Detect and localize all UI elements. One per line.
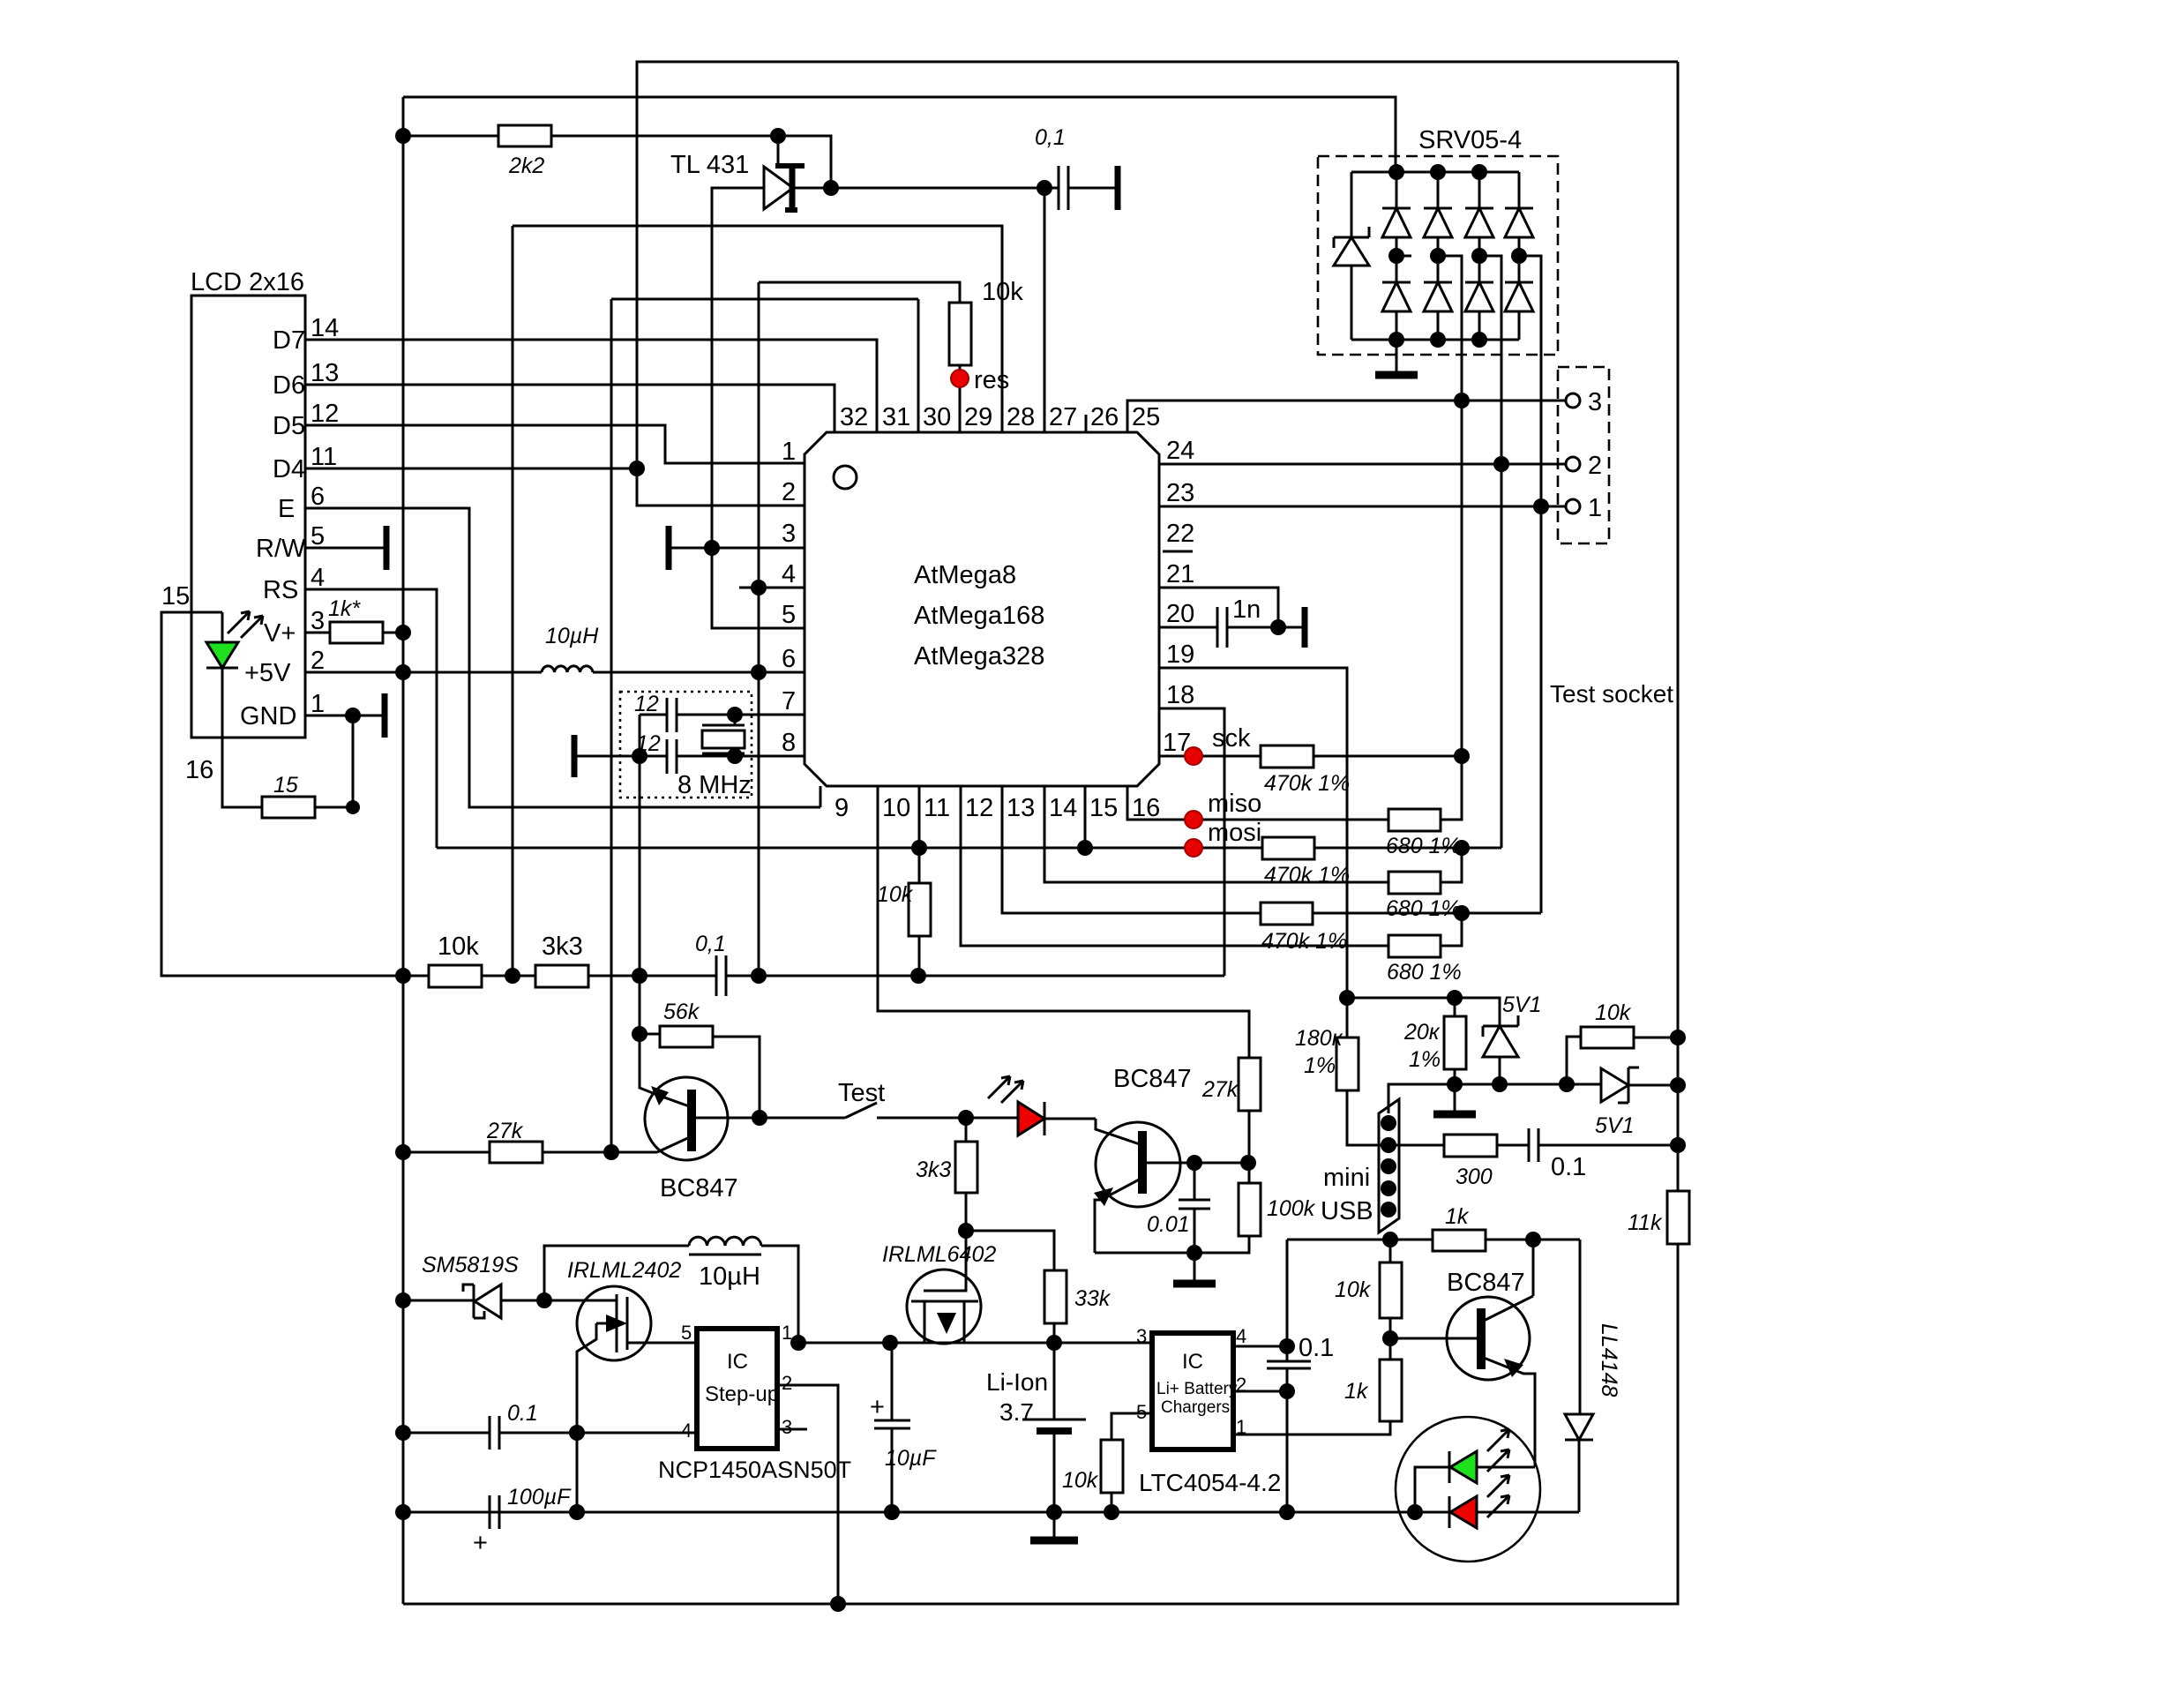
IC LTC4054 charger bbox=[1136, 1325, 1281, 1496]
LCD pin D4 wire (to node at x722) bbox=[273, 443, 637, 483]
svg-text:12: 12 bbox=[965, 794, 993, 822]
wire caps common leg bbox=[639, 715, 641, 756]
svg-text:RS: RS bbox=[263, 576, 298, 604]
junction 0.1/right rail bbox=[1670, 1137, 1686, 1153]
svg-text:2k2: 2k2 bbox=[508, 154, 544, 178]
svg-text:22: 22 bbox=[1166, 520, 1194, 548]
wire MCU pin 16 to miso row bbox=[1127, 786, 1388, 820]
svg-text:100µF: 100µF bbox=[507, 1485, 572, 1509]
svg-text:mini: mini bbox=[1323, 1164, 1370, 1192]
junction mid d4 bbox=[1511, 248, 1527, 264]
op-amp TL431 shunt regulator bbox=[670, 151, 805, 212]
junction 1k row left bbox=[1382, 1232, 1398, 1247]
junction pin23/TP1 bbox=[1533, 498, 1549, 514]
junction pin24/TP2 bbox=[1493, 456, 1509, 472]
svg-text:0.1: 0.1 bbox=[507, 1401, 538, 1426]
junction 56k left / VCC column bbox=[632, 1026, 647, 1042]
junction mid d3 bbox=[1471, 248, 1487, 264]
resistor 100k bbox=[1095, 1163, 1316, 1253]
junction chg 0.1 bottom rail bbox=[1279, 1504, 1295, 1520]
junction x725/row1106 bbox=[632, 968, 647, 984]
+5V bus vertical bbox=[402, 97, 405, 1604]
junction VCC row / mosfet left bbox=[882, 1335, 898, 1351]
svg-text:56k: 56k bbox=[663, 1000, 700, 1024]
junction battery node bbox=[1046, 1335, 1062, 1351]
wire MCU pin 11 with 10k bbox=[877, 786, 931, 976]
wire chg pin1 to 1k bbox=[1233, 1421, 1390, 1435]
capacitor 0,1 (AREF row) bbox=[695, 932, 1224, 996]
svg-text:1: 1 bbox=[1588, 494, 1602, 522]
svg-text:0,1: 0,1 bbox=[1035, 125, 1066, 150]
battery Li-Ion 3.7 bbox=[986, 1343, 1086, 1512]
wire row 1106 (left part) bbox=[403, 975, 716, 978]
junction at resistor 15 right bbox=[346, 800, 360, 814]
svg-text:15: 15 bbox=[1089, 794, 1118, 822]
svg-text:0.01: 0.01 bbox=[1147, 1212, 1190, 1237]
svg-text:E: E bbox=[278, 495, 295, 523]
junction row1229/right rail bbox=[1670, 1077, 1686, 1093]
wire mosi row (RS to 470k) bbox=[437, 847, 1262, 850]
svg-text:20: 20 bbox=[1166, 600, 1194, 628]
LCD pin D7 wire (to MCU pin 31) bbox=[273, 314, 877, 432]
svg-text:1%: 1% bbox=[1304, 1053, 1336, 1078]
wire NCP pin2 feedback bbox=[777, 1385, 838, 1604]
junction 10k/3k3 bbox=[505, 968, 520, 984]
svg-text:10k: 10k bbox=[877, 882, 914, 907]
svg-text:27: 27 bbox=[1049, 403, 1077, 431]
wire MCU pin 8 row bbox=[576, 755, 805, 758]
svg-text:+: + bbox=[473, 1529, 488, 1557]
junction 3k3/33k bbox=[958, 1223, 974, 1239]
svg-text:5V1: 5V1 bbox=[1595, 1113, 1634, 1138]
junction bottom bus d3 bbox=[1471, 332, 1487, 348]
diode column 4 (SRV05) bbox=[1505, 172, 1533, 340]
svg-text:5: 5 bbox=[311, 522, 325, 551]
svg-text:12: 12 bbox=[634, 692, 659, 716]
svg-text:18: 18 bbox=[1166, 681, 1194, 709]
wire MCU pin 14 row bbox=[1044, 786, 1388, 882]
capacitor 100uF bbox=[403, 1485, 892, 1557]
svg-text:3: 3 bbox=[1136, 1325, 1147, 1347]
wire VCC vertical x860 bbox=[758, 282, 760, 976]
wire MCU pin 23 to test socket 1 bbox=[1159, 506, 1565, 508]
junction 1k/collector bbox=[1525, 1232, 1541, 1247]
diode column 3 (SRV05) bbox=[1465, 172, 1493, 340]
svg-text:SM5819S: SM5819S bbox=[422, 1253, 519, 1277]
svg-text:19: 19 bbox=[1166, 640, 1194, 669]
junction 10k prog bottom bbox=[1104, 1504, 1119, 1520]
svg-text:180к: 180к bbox=[1295, 1026, 1343, 1051]
svg-text:AtMega8: AtMega8 bbox=[914, 561, 1016, 589]
junction pin2/bottom rail bbox=[830, 1596, 846, 1612]
junction chg pin4 bbox=[1279, 1338, 1295, 1354]
wire 180k column node bbox=[1339, 990, 1355, 1006]
svg-text:USB: USB bbox=[1321, 1197, 1373, 1225]
junction green/red cathodes bbox=[1407, 1504, 1423, 1520]
svg-text:680 1%: 680 1% bbox=[1387, 960, 1462, 985]
svg-text:2: 2 bbox=[1588, 452, 1602, 480]
resistor 1k (divider low) bbox=[1344, 1360, 1402, 1421]
junction mid d1 bbox=[1388, 248, 1404, 264]
wire USB shield down to 1k row bbox=[1388, 1232, 1390, 1240]
junction row1035/TP1 link bbox=[1454, 905, 1470, 921]
junction bottom bus d1 bbox=[1388, 332, 1404, 348]
resistor 3k3 (row 1106) bbox=[535, 933, 588, 987]
junction sck/TP3 bbox=[1454, 748, 1470, 764]
terminal 2 bbox=[1566, 452, 1602, 480]
terminal 3 bbox=[1566, 388, 1602, 416]
svg-text:7: 7 bbox=[782, 687, 796, 715]
junction rail/bus bbox=[395, 1504, 411, 1520]
junction bottom bus d2 bbox=[1430, 332, 1446, 348]
junction diode/gate/inductor bbox=[536, 1292, 552, 1308]
MCU AtMega8/168/328 bbox=[805, 432, 1159, 786]
junction row1106/pin11 10k bbox=[910, 968, 926, 984]
svg-text:25: 25 bbox=[1132, 403, 1160, 431]
resistor 10k (right top) bbox=[1567, 1000, 1678, 1084]
svg-text:1n: 1n bbox=[1232, 596, 1261, 624]
junction pin15/mosi row bbox=[1077, 840, 1093, 856]
resistor 56k bbox=[640, 1000, 760, 1118]
svg-text:8 MHz: 8 MHz bbox=[677, 771, 752, 799]
capacitor 0.1 (usb row) bbox=[1529, 1128, 1678, 1181]
zener diode (SRV05 internal) bbox=[1334, 172, 1369, 340]
junction top bus d3 bbox=[1471, 164, 1487, 180]
wire MCU pin 19 to 180k column bbox=[1159, 668, 1347, 1038]
diode LL4148 bbox=[1565, 1240, 1621, 1512]
svg-text:4: 4 bbox=[681, 1420, 692, 1442]
resistor 1k (top) bbox=[1287, 1204, 1580, 1251]
svg-text:29: 29 bbox=[964, 403, 992, 431]
junction crystal bottom bbox=[727, 748, 743, 764]
bottom rail (battery minus) bbox=[403, 1511, 1579, 1514]
svg-text:20к: 20к bbox=[1403, 1020, 1441, 1045]
svg-text:32: 32 bbox=[840, 403, 868, 431]
svg-text:AtMega328: AtMega328 bbox=[914, 642, 1044, 670]
svg-text:V+: V+ bbox=[264, 619, 296, 648]
svg-text:4: 4 bbox=[782, 560, 796, 588]
svg-text:3: 3 bbox=[311, 607, 325, 635]
wire mosfet source to rail bbox=[576, 1433, 579, 1512]
ground (battery) bbox=[1030, 1512, 1078, 1540]
junction 10uF rail bbox=[884, 1504, 900, 1520]
svg-text:IC: IC bbox=[727, 1350, 748, 1374]
svg-text:11k: 11k bbox=[1628, 1210, 1663, 1235]
wire row 1131 bbox=[1347, 998, 1500, 1026]
junction chg pin2 bbox=[1279, 1383, 1295, 1399]
svg-text:10µH: 10µH bbox=[545, 624, 599, 648]
wire MCU pin 20 with 1n cap bbox=[1159, 596, 1305, 648]
svg-text:6: 6 bbox=[782, 645, 796, 673]
wire inductor to MCU pin 6 bbox=[593, 671, 805, 674]
wire 2k2 row to TL431 ref bbox=[778, 136, 831, 188]
LCD backlight green LED bbox=[206, 611, 263, 738]
svg-text:11: 11 bbox=[924, 794, 950, 822]
wire MCU pin 25 to test socket 3 bbox=[1127, 401, 1565, 432]
svg-text:10k: 10k bbox=[438, 933, 479, 961]
wire MCU pin 4 bbox=[739, 587, 805, 589]
junction bus/0.1 bbox=[395, 1425, 411, 1441]
stub mid d1 bbox=[1396, 255, 1411, 258]
svg-text:28: 28 bbox=[1007, 403, 1035, 431]
wire MCU pin 15 stub bbox=[1084, 786, 1087, 848]
resistor 3k3 (LED) bbox=[916, 1118, 977, 1231]
wire MCU pin 17 sck row bbox=[1159, 755, 1261, 758]
node D4/pin2 junction bbox=[629, 461, 645, 476]
svg-text:Step-up: Step-up bbox=[705, 1382, 779, 1406]
svg-text:LCD 2x16: LCD 2x16 bbox=[191, 268, 304, 296]
MCU top pin numbers bbox=[840, 403, 1160, 431]
svg-text:30: 30 bbox=[923, 403, 951, 431]
junction test/3k3 bbox=[958, 1110, 974, 1126]
junction 20k top bbox=[1447, 990, 1463, 1006]
wire pin18 to row 1106 bbox=[1159, 708, 1224, 976]
svg-text:TL 431: TL 431 bbox=[670, 151, 749, 179]
svg-text:26: 26 bbox=[1090, 403, 1119, 431]
svg-text:D6: D6 bbox=[273, 371, 305, 400]
MCU bottom pin numbers bbox=[835, 794, 1160, 822]
svg-text:5: 5 bbox=[782, 601, 796, 629]
LCD pin D6 wire (to MCU pin 32) bbox=[273, 359, 835, 432]
resistor 470k 1% (third) bbox=[1261, 903, 1541, 954]
diode column 2 (SRV05) bbox=[1424, 172, 1452, 340]
svg-text:11: 11 bbox=[311, 443, 337, 471]
crystal 8 MHz bbox=[677, 715, 752, 799]
node miso bbox=[1185, 790, 1261, 828]
junction top bus feed bbox=[1388, 164, 1404, 180]
svg-text:5: 5 bbox=[681, 1322, 692, 1344]
wire VCC row 1522 bbox=[798, 1342, 1152, 1345]
wire MCU pin 10 to 27k bbox=[878, 786, 1249, 1058]
LCD pin R/W wire to ground bbox=[256, 522, 386, 570]
capacitor 12 (bottom) bbox=[636, 731, 677, 774]
svg-text:IRLML2402: IRLML2402 bbox=[567, 1258, 681, 1283]
LCD pin E wire bbox=[278, 483, 820, 807]
LED red (test) bbox=[966, 1076, 1096, 1135]
resistor 2k2 bbox=[403, 125, 778, 178]
wire TP3 from SRV05 bbox=[1438, 256, 1462, 820]
wire MCU pin 7 row bbox=[677, 714, 805, 716]
svg-text:D5: D5 bbox=[273, 412, 305, 440]
LED red (charge) bbox=[1449, 1475, 1509, 1528]
svg-text:16: 16 bbox=[1132, 794, 1160, 822]
wire from D4 node up to top rail bbox=[637, 62, 1678, 468]
svg-text:13: 13 bbox=[311, 359, 339, 387]
svg-text:21: 21 bbox=[1166, 560, 1194, 588]
svg-text:0,1: 0,1 bbox=[695, 932, 726, 956]
svg-text:2: 2 bbox=[311, 647, 325, 675]
SRV05 top bus bbox=[1351, 171, 1519, 174]
svg-text:IC: IC bbox=[1182, 1350, 1203, 1374]
junction Q2 collector / 0.01 bbox=[1186, 1155, 1202, 1171]
svg-text:3.7: 3.7 bbox=[999, 1398, 1034, 1426]
svg-text:mosi: mosi bbox=[1208, 819, 1261, 847]
resistor 180k 1% bbox=[1295, 1026, 1388, 1145]
wire NCP pin3 stub bbox=[777, 1428, 807, 1431]
Test switch bbox=[760, 1079, 966, 1118]
wire backlight return to GND node bbox=[352, 715, 355, 807]
svg-text:+5V: +5V bbox=[244, 659, 291, 687]
svg-text:LL4148: LL4148 bbox=[1597, 1323, 1621, 1397]
+5V top feed row to SRV05 bbox=[403, 97, 1396, 172]
svg-text:D7: D7 bbox=[273, 326, 305, 355]
LCD pin V+ wire bbox=[264, 607, 330, 648]
svg-text:4: 4 bbox=[311, 564, 325, 592]
diode SM5819S (Schottky) bbox=[403, 1253, 544, 1318]
svg-text:1: 1 bbox=[782, 438, 796, 466]
junction pin20/21 bbox=[1270, 619, 1286, 635]
junction 10k/right rail bbox=[1670, 1030, 1686, 1045]
zener 5V1 (vertical) bbox=[1483, 993, 1541, 1084]
resistor 33k bbox=[966, 1231, 1111, 1343]
svg-text:0.1: 0.1 bbox=[1299, 1334, 1334, 1362]
junction 10k drop bbox=[1559, 1076, 1575, 1092]
node sck bbox=[1185, 724, 1251, 765]
inductor 10uH (step-up) bbox=[544, 1237, 798, 1343]
junction +5V/bus bbox=[395, 664, 411, 680]
capacitor 0,1 (top) bbox=[1035, 125, 1118, 210]
svg-text:31: 31 bbox=[882, 403, 910, 431]
wire TP1 from SRV05 bbox=[1519, 256, 1541, 913]
LED green (charge) bbox=[1415, 1429, 1535, 1512]
junction VCC/pin4 bbox=[751, 580, 767, 596]
resistor 470k 1% (sck) bbox=[1261, 745, 1462, 796]
wire to MCU pin 27 bbox=[1044, 188, 1046, 432]
wire MCU pin 12 row bbox=[961, 786, 1388, 946]
resistor 680 1% (third) bbox=[1387, 913, 1462, 985]
svg-text:2: 2 bbox=[782, 478, 796, 506]
svg-text:100k: 100k bbox=[1267, 1196, 1316, 1221]
svg-text:10k: 10k bbox=[1335, 1277, 1372, 1302]
svg-text:14: 14 bbox=[311, 314, 339, 342]
IC NCP1450 step-up bbox=[658, 1322, 851, 1483]
svg-text:LTC4054-4.2: LTC4054-4.2 bbox=[1139, 1469, 1281, 1496]
resistor 10k (prog) bbox=[1062, 1413, 1152, 1512]
zener 5V1 (horizontal) bbox=[1595, 1067, 1678, 1138]
junction NCP pin1 output bbox=[790, 1335, 806, 1351]
svg-text:10µH: 10µH bbox=[699, 1262, 760, 1291]
bicolor LED assembly bbox=[1396, 1417, 1540, 1562]
resistor 1k* bbox=[328, 596, 403, 643]
LCD pin GND wire bbox=[240, 690, 385, 738]
wire chg pin2 bbox=[1233, 1390, 1287, 1393]
svg-text:470k 1%: 470k 1% bbox=[1264, 771, 1350, 796]
resistor 680 1% (second) bbox=[1386, 848, 1462, 921]
junction AVCC bbox=[751, 664, 767, 680]
svg-text:IRLML6402: IRLML6402 bbox=[882, 1242, 996, 1267]
MCU pin 3 ground bbox=[669, 526, 805, 570]
mini USB connector bbox=[1321, 1099, 1399, 1232]
resistor 10k (reset pull-up) bbox=[759, 278, 1023, 432]
junction source/rail bbox=[569, 1504, 585, 1520]
wire vertical x581 (row256 to 10k/3k3 node) bbox=[512, 226, 514, 976]
svg-text:5V1: 5V1 bbox=[1502, 993, 1541, 1017]
junction mid d2 bbox=[1430, 248, 1446, 264]
svg-text:10k: 10k bbox=[982, 278, 1023, 306]
crystal block dotted box bbox=[620, 692, 752, 798]
svg-text:NCP1450ASN50T: NCP1450ASN50T bbox=[658, 1457, 851, 1483]
svg-text:R/W: R/W bbox=[256, 535, 306, 563]
svg-text:Li-Ion: Li-Ion bbox=[986, 1368, 1048, 1396]
svg-text:10k: 10k bbox=[1062, 1468, 1099, 1493]
wire LCD pin 15 (backlight anode) bbox=[161, 582, 403, 976]
svg-text:3k3: 3k3 bbox=[542, 933, 583, 961]
svg-text:12: 12 bbox=[311, 400, 339, 428]
junction TL431 out bbox=[823, 180, 839, 196]
ground (20k/zener) bbox=[1433, 1111, 1476, 1119]
LCD module box bbox=[191, 268, 305, 738]
svg-text:BC847: BC847 bbox=[1113, 1065, 1192, 1093]
junction 0.1/mosfet source bbox=[569, 1425, 585, 1441]
svg-text:470k 1%: 470k 1% bbox=[1261, 929, 1347, 954]
diode column 1 (SRV05) bbox=[1382, 172, 1411, 340]
junction 0.01 bottom bbox=[1186, 1245, 1202, 1261]
svg-text:res: res bbox=[974, 366, 1009, 394]
resistor 27k (left) bbox=[403, 1119, 657, 1163]
capacitor 0.01 bbox=[1147, 1163, 1210, 1253]
svg-text:AtMega168: AtMega168 bbox=[914, 602, 1044, 630]
junction 56k right / collector bbox=[752, 1110, 767, 1126]
junction zener1 anode bbox=[1492, 1076, 1508, 1092]
resistor 10k (row 1106) bbox=[429, 933, 482, 987]
junction pin3/TL431 anode bbox=[704, 540, 720, 556]
svg-text:8: 8 bbox=[782, 729, 796, 757]
resistor 680 1% (miso) bbox=[1386, 756, 1462, 858]
svg-text:SRV05-4: SRV05-4 bbox=[1418, 126, 1522, 154]
svg-text:23: 23 bbox=[1166, 479, 1194, 507]
ground (Q2 emitter) bbox=[1173, 1253, 1216, 1284]
junction pin11/mosi row bbox=[911, 840, 927, 856]
svg-text:14: 14 bbox=[1049, 794, 1077, 822]
svg-text:13: 13 bbox=[1007, 794, 1035, 822]
svg-text:24: 24 bbox=[1166, 437, 1194, 465]
svg-text:BC847: BC847 bbox=[660, 1174, 738, 1202]
svg-text:4: 4 bbox=[1236, 1325, 1246, 1347]
svg-text:1%: 1% bbox=[1409, 1047, 1441, 1072]
wire MCU pin 13 row bbox=[1002, 786, 1261, 913]
MCU left pin numbers bbox=[782, 438, 796, 757]
svg-text:D4: D4 bbox=[273, 455, 305, 483]
wire MCU pin 22 stub (n.c.) bbox=[1163, 551, 1193, 553]
SRV05 bottom bus bbox=[1351, 339, 1519, 341]
svg-text:33k: 33k bbox=[1074, 1286, 1111, 1311]
resistor 10k (divider high) bbox=[1335, 1240, 1402, 1360]
svg-text:16: 16 bbox=[185, 756, 213, 784]
node mosi bbox=[1185, 819, 1261, 857]
top rail right side down bbox=[1677, 62, 1680, 1191]
svg-text:15: 15 bbox=[273, 773, 298, 798]
svg-text:BC847: BC847 bbox=[1447, 1269, 1525, 1297]
svg-text:Test: Test bbox=[838, 1079, 885, 1107]
wire row 256 to MCU pin 28 bbox=[513, 226, 1002, 432]
wire MCU pin 21 bbox=[1159, 588, 1278, 627]
inductor 10uH (AVCC filter) bbox=[542, 624, 599, 672]
wire TL431 output row bbox=[795, 187, 1059, 190]
capacitor 0.1 (step-up) bbox=[403, 1401, 697, 1450]
svg-text:1k: 1k bbox=[1445, 1204, 1470, 1229]
Test socket bbox=[1550, 367, 1673, 708]
LCD pin RS wire (down then right to mosi row) bbox=[263, 564, 437, 848]
wire from caps leg down to VCC row (x725) bbox=[639, 756, 641, 1034]
junction battery rail bbox=[1046, 1504, 1062, 1520]
capacitor 12 (top) bbox=[634, 692, 677, 732]
junction 20k bottom row bbox=[1447, 1076, 1463, 1092]
wire TL431 cathode top hook feed bbox=[777, 136, 780, 164]
svg-text:3k3: 3k3 bbox=[916, 1157, 951, 1182]
wire from D4 node down to MCU pin 2 bbox=[637, 468, 805, 506]
transistor IRLML6402 (P-MOSFET) bbox=[882, 1231, 996, 1344]
MCU pin 26 stub bbox=[1085, 415, 1088, 432]
